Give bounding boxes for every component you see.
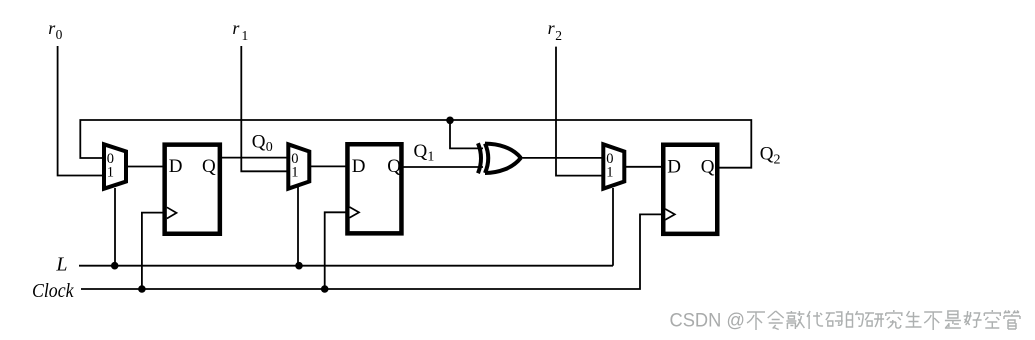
svg-text:D: D <box>352 156 366 177</box>
svg-text:CSDN @: CSDN @ <box>670 310 746 332</box>
svg-text:D: D <box>667 156 681 177</box>
svg-text:1: 1 <box>427 150 434 165</box>
svg-text:0: 0 <box>56 27 63 42</box>
svg-text:Q: Q <box>760 144 774 165</box>
svg-text:D: D <box>169 156 183 177</box>
svg-text:0: 0 <box>266 140 273 155</box>
svg-text:Q: Q <box>252 131 266 152</box>
svg-text:2: 2 <box>774 153 781 168</box>
svg-text:Q: Q <box>414 141 428 162</box>
svg-text:Clock: Clock <box>32 280 74 302</box>
svg-text:r: r <box>232 18 240 38</box>
svg-text:1: 1 <box>606 165 613 181</box>
svg-text:1: 1 <box>107 165 114 181</box>
svg-text:1: 1 <box>242 28 249 43</box>
svg-text:L: L <box>55 253 67 275</box>
svg-text:Q: Q <box>202 156 216 177</box>
svg-text:Q: Q <box>387 156 401 177</box>
svg-text:Q: Q <box>701 156 715 177</box>
svg-text:2: 2 <box>555 28 562 43</box>
svg-text:1: 1 <box>291 165 298 181</box>
